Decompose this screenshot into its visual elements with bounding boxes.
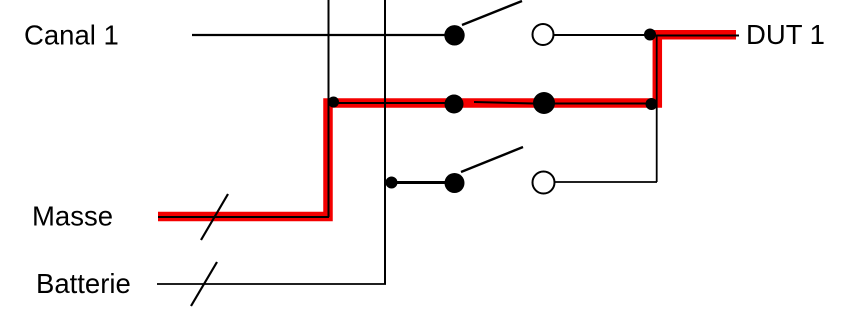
junction bus2 / lower stub [386, 177, 398, 189]
wire Masse horizontal [158, 216, 329, 218]
wire lower switch stub [391, 181, 448, 184]
switch contact dot top [444, 25, 464, 45]
switch contact dot lower [445, 173, 465, 193]
closed switch blade middle [474, 102, 544, 104]
wire DUT 1 lead [650, 35, 739, 37]
wire right vertical link [656, 35, 658, 182]
junction middle right [646, 98, 658, 110]
junction top right [644, 29, 656, 41]
svg-text:Masse: Masse [32, 200, 113, 231]
wire middle right segment [544, 103, 652, 105]
svg-text:Canal 1: Canal 1 [24, 19, 119, 50]
junction bus1 / middle wire [328, 97, 339, 108]
open contact circle lower [533, 172, 555, 194]
wire bus 1 vertical [328, 0, 330, 217]
switch common dot middle [533, 92, 555, 114]
open switch blade top [462, 1, 522, 25]
wire Batterie horizontal [157, 283, 386, 285]
wire Canal 1 horizontal [192, 34, 448, 36]
open switch blade lower [461, 147, 523, 172]
wire bus 2 vertical [384, 0, 386, 284]
slash on Masse wire [201, 194, 228, 240]
wire top circle to junction [554, 34, 652, 36]
svg-text:Batterie: Batterie [36, 268, 131, 299]
switch contact dot middle [445, 95, 464, 114]
open contact circle top [533, 24, 554, 45]
svg-text:DUT 1: DUT 1 [746, 19, 825, 50]
wire middle left segment [333, 102, 448, 104]
highlighted net Masse-to-DUT1 (red path) [158, 35, 736, 217]
wire lower circle to vertical link [554, 181, 657, 183]
slash on Batterie wire [191, 262, 217, 306]
